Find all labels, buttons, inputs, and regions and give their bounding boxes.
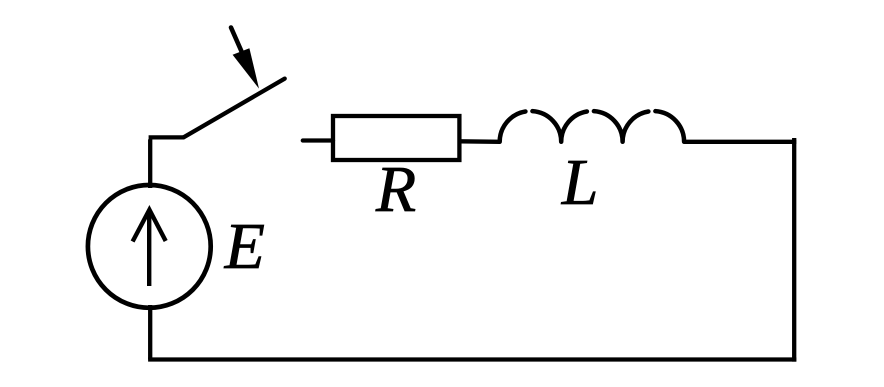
resistor R: body — [333, 116, 459, 160]
source E: circle — [88, 185, 211, 308]
wire: top right (inductor to right rail) — [684, 140, 796, 144]
switch actuation arrow — [231, 28, 259, 89]
wire: switch pivot stub — [149, 135, 184, 139]
svg-text:L: L — [561, 146, 599, 219]
switch blade — [184, 79, 285, 138]
wire: resistor to inductor lead — [459, 139, 499, 144]
source E: internal up arrow — [133, 210, 166, 286]
svg-text:R: R — [375, 153, 416, 226]
wire: source bottom to bottom rail — [148, 305, 152, 360]
wire: resistor left lead — [303, 138, 333, 142]
inductor L: three humps with apex gaps — [500, 111, 684, 142]
svg-text:E: E — [224, 210, 265, 283]
wire: bottom rail — [148, 357, 796, 361]
wire: right vertical — [792, 138, 796, 362]
wire: left vertical from switch to source top — [148, 139, 152, 188]
